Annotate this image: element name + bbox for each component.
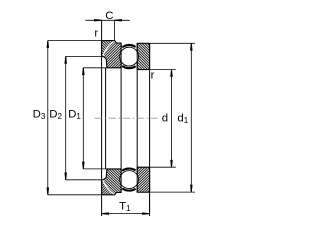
svg-text:r: r — [94, 27, 98, 39]
svg-text:C: C — [105, 10, 113, 22]
svg-text:r: r — [151, 70, 155, 82]
svg-text:d: d — [162, 113, 168, 125]
